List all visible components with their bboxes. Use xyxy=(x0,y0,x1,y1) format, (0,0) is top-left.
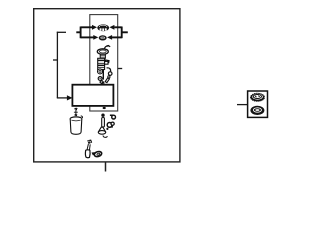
pump assembly: body xyxy=(98,58,105,69)
elbow hose: clamp head xyxy=(87,140,92,145)
funnel valve xyxy=(99,127,106,132)
bolt shank xyxy=(102,118,105,128)
pump assembly: right hook tube xyxy=(107,68,111,72)
pump assembly: hook eye xyxy=(108,72,112,76)
elbow hose: body xyxy=(85,150,90,158)
bottom leader line xyxy=(105,162,107,172)
top arrows: lower-left arrowhead xyxy=(93,35,98,40)
funnel base xyxy=(98,131,105,135)
top arrows: right bracket xyxy=(121,27,123,39)
arrow into big rectangle xyxy=(67,95,73,100)
pump assembly: cap inner xyxy=(99,50,106,53)
pump assembly: neck thread lines xyxy=(100,56,105,57)
top arrows: upper-left line xyxy=(81,26,93,28)
top arrows: left bracket xyxy=(80,27,82,39)
elbow hose: neck xyxy=(87,144,90,150)
top arrows: right stub xyxy=(122,31,128,33)
pump assembly: port circle xyxy=(98,69,103,74)
pump assembly: link pin xyxy=(108,76,110,78)
cup / strainer xyxy=(70,116,82,134)
pump assembly: cap xyxy=(97,49,108,55)
top arrows: left stub xyxy=(76,31,80,33)
pump assembly: right angled link xyxy=(105,78,109,83)
pump assembly: foot xyxy=(100,80,104,83)
elbow hose: outlet tube xyxy=(92,151,103,158)
top arrows: upper-right line xyxy=(114,26,121,28)
pump assembly: right nub at neck xyxy=(105,60,109,63)
left bracket top arm xyxy=(57,31,66,33)
pump assembly: bottom circle dot xyxy=(100,78,101,79)
pump assembly: side fitting xyxy=(105,61,108,64)
funnel side dot xyxy=(106,128,108,130)
small cup below funnel xyxy=(103,135,107,137)
pump assembly: cap lever xyxy=(104,46,110,49)
filler cap (knurled) xyxy=(250,93,265,102)
top arrows: upper-right arrowhead xyxy=(109,25,114,30)
grommet cluster (right) xyxy=(107,122,114,128)
top arrows: lower-left line xyxy=(81,36,94,38)
pump assembly: stem xyxy=(102,70,104,80)
inner tall rectangle (assembly box) xyxy=(90,15,118,111)
pump assembly: bottom circle xyxy=(98,77,102,81)
screw (left, above cup) xyxy=(74,108,78,116)
grommet B (small seal between lower arrows) xyxy=(99,35,107,40)
top arrows: lower-right line xyxy=(112,36,122,38)
pump assembly: lever knob xyxy=(106,45,110,47)
big callout rectangle xyxy=(72,85,113,106)
pump assembly: port inner xyxy=(99,70,101,72)
left bracket mid tick xyxy=(53,59,57,61)
pump assembly: neck xyxy=(100,54,105,58)
clip (right of bolt) xyxy=(110,115,116,120)
right detail box xyxy=(248,91,268,117)
gasket seal xyxy=(250,106,264,115)
cap A (large ribbed cap between top arrows) xyxy=(97,24,109,31)
pump assembly: body bands xyxy=(98,59,105,61)
right tick callout xyxy=(118,68,123,70)
small dot below big rectangle xyxy=(103,107,106,109)
top arrows: lower-right arrowhead xyxy=(107,35,112,40)
left bracket vertical xyxy=(56,32,58,98)
right detail box stub line xyxy=(237,104,248,106)
left bracket bottom arm xyxy=(57,97,68,99)
top arrows: upper-left arrowhead xyxy=(92,25,97,30)
pump assembly: foot dot xyxy=(102,82,104,84)
bolt head dot xyxy=(101,114,104,117)
outer frame xyxy=(34,9,180,162)
